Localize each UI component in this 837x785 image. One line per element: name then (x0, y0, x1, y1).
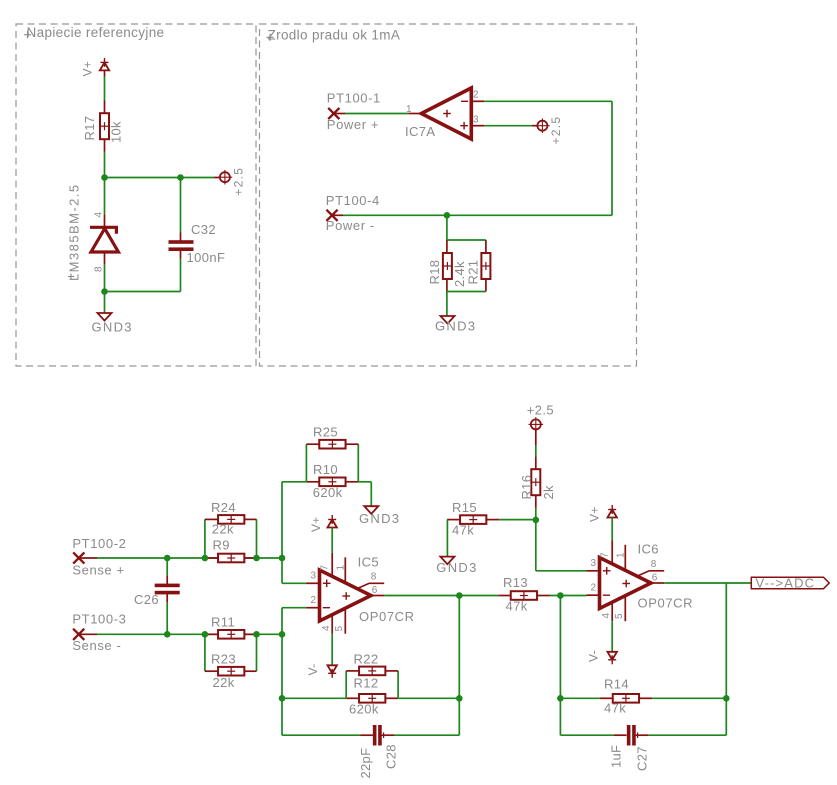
svg-text:R13: R13 (503, 575, 528, 590)
svg-text:4: 4 (321, 625, 332, 631)
svg-text:8: 8 (651, 559, 657, 570)
svg-text:GND3: GND3 (92, 320, 133, 335)
svg-text:V+: V+ (309, 516, 323, 532)
svg-text:C26: C26 (134, 592, 159, 607)
svg-text:1uF: 1uF (609, 745, 624, 768)
svg-text:Sense +: Sense + (72, 563, 124, 578)
svg-text:V-: V- (306, 664, 320, 676)
svg-text:2: 2 (310, 595, 316, 606)
svg-text:R16: R16 (519, 475, 534, 500)
svg-text:2k: 2k (541, 485, 556, 500)
svg-text:2: 2 (590, 583, 596, 594)
svg-text:PT100-1: PT100-1 (327, 91, 381, 106)
svg-text:8: 8 (371, 572, 377, 583)
svg-text:V+: V+ (81, 61, 95, 77)
svg-text:Napiecie referencyjne: Napiecie referencyjne (27, 25, 165, 40)
svg-text:R17: R17 (82, 116, 97, 141)
svg-text:IC6: IC6 (638, 542, 659, 557)
svg-text:C28: C28 (384, 744, 399, 769)
svg-text:R9: R9 (213, 538, 230, 553)
svg-text:IC5: IC5 (358, 555, 379, 570)
svg-text:R22: R22 (354, 652, 379, 667)
svg-text:GND3: GND3 (359, 511, 400, 526)
svg-text:3: 3 (473, 115, 479, 126)
svg-text:47k: 47k (604, 701, 626, 716)
svg-text:GND3: GND3 (435, 319, 476, 334)
svg-text:LM385BM-2.5: LM385BM-2.5 (67, 183, 82, 281)
svg-text:OP07CR: OP07CR (638, 596, 694, 611)
svg-text:4: 4 (94, 212, 105, 218)
svg-text:5: 5 (614, 613, 625, 619)
svg-text:Power -: Power - (326, 218, 375, 233)
svg-text:6: 6 (372, 585, 378, 596)
svg-text:PT100-4: PT100-4 (326, 193, 380, 208)
svg-text:4: 4 (601, 613, 612, 619)
svg-text:R12: R12 (354, 676, 379, 691)
svg-text:5: 5 (334, 626, 345, 632)
svg-text:2: 2 (473, 90, 479, 101)
svg-text:PT100-2: PT100-2 (72, 536, 126, 551)
svg-text:PT100-3: PT100-3 (72, 612, 126, 627)
svg-text:620k: 620k (313, 485, 343, 500)
svg-text:7: 7 (600, 552, 611, 558)
svg-text:22pF: 22pF (358, 748, 373, 779)
svg-text:1: 1 (336, 565, 347, 571)
svg-text:10k: 10k (109, 121, 124, 143)
svg-text:IC7A: IC7A (405, 124, 436, 139)
svg-text:22k: 22k (212, 522, 234, 537)
svg-text:Sense -: Sense - (72, 638, 121, 653)
svg-text:Zrodlo pradu ok 1mA: Zrodlo pradu ok 1mA (268, 28, 401, 43)
svg-text:+2.5: +2.5 (549, 116, 563, 145)
svg-text:OP07CR: OP07CR (359, 609, 415, 624)
svg-text:R25: R25 (313, 425, 338, 440)
svg-text:6: 6 (652, 573, 658, 584)
svg-text:47k: 47k (506, 599, 528, 614)
svg-text:+2.5: +2.5 (527, 403, 554, 418)
svg-text:R14: R14 (604, 677, 629, 692)
svg-text:3: 3 (310, 571, 316, 582)
svg-text:V-: V- (587, 650, 601, 662)
svg-text:R21: R21 (466, 260, 481, 285)
svg-text:620k: 620k (349, 702, 379, 717)
svg-text:8: 8 (94, 266, 105, 272)
svg-text:R15: R15 (452, 500, 477, 515)
svg-text:3: 3 (590, 558, 596, 569)
svg-text:R24: R24 (211, 500, 236, 515)
svg-text:V+: V+ (588, 506, 602, 522)
svg-text:+2.5: +2.5 (232, 167, 246, 196)
svg-text:7: 7 (320, 565, 331, 571)
svg-text:V-->ADC: V-->ADC (756, 575, 816, 590)
svg-text:GND3: GND3 (436, 560, 477, 575)
svg-text:100nF: 100nF (187, 250, 226, 265)
svg-text:Power +: Power + (327, 117, 379, 132)
svg-text:R10: R10 (313, 462, 338, 477)
svg-text:47k: 47k (452, 523, 474, 538)
svg-text:C27: C27 (635, 746, 650, 771)
svg-text:1: 1 (616, 552, 627, 558)
svg-text:22k: 22k (213, 675, 235, 690)
svg-text:C32: C32 (191, 222, 216, 237)
svg-text:R23: R23 (211, 652, 236, 667)
svg-text:R11: R11 (211, 615, 235, 630)
svg-text:R18: R18 (427, 260, 442, 285)
